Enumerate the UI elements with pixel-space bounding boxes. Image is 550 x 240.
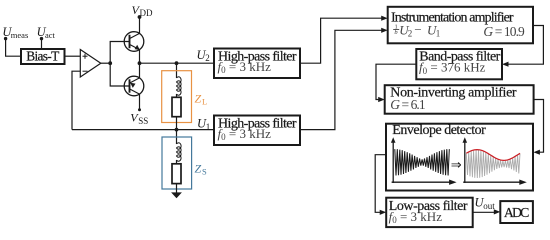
svg-text:G = 6.1: G = 6.1 [390,97,425,112]
wire U2 node to ZL [176,63,178,78]
node base-drive junction [108,61,112,65]
Bias-T block [21,48,65,64]
wire base node to Q2 base [110,63,129,86]
block non-inverting amplifier [385,85,534,114]
wire ZL resistor to U1 node [176,117,178,130]
ground [171,192,182,198]
wire inst amp to band-pass filter [508,26,543,65]
svg-text:act: act [45,30,56,40]
node Umeas terminal dot [4,37,7,40]
wire non-inverting amp to envelope detector [534,100,544,153]
inductor in ZL [176,77,181,95]
transistor Q2 (PNP) [124,76,144,96]
node ZL tap junction [175,61,179,65]
wire Q2 collector to VSS [139,94,141,110]
svg-text:out: out [483,201,495,211]
wire Q1 collector to VDD [139,17,141,33]
block envelope detector [386,123,533,191]
svg-text:SS: SS [138,116,148,126]
wire Q2 emitter to output node [139,63,141,78]
svg-text:S: S [202,167,207,177]
net VSS label [130,111,148,126]
svg-text:1: 1 [206,122,211,132]
inductor in ZS [176,143,181,161]
wire Uact to Bias-T top [41,39,43,49]
svg-text:⇒: ⇒ [451,157,462,172]
svg-text:2: 2 [408,29,413,39]
node Uact terminal dot [40,37,43,40]
wire envelope detector to low-pass filter [375,155,386,213]
wire HP1 to instrumentation amplifier [300,18,382,63]
svg-text:L: L [202,97,207,107]
svg-text:Bias-T: Bias-T [26,48,59,63]
node U1 junction [175,128,179,132]
svg-text:Z: Z [195,162,202,176]
block ADC [500,201,533,223]
svg-text:2: 2 [205,53,210,63]
label ZL [195,92,208,107]
left plot x-axis [392,180,457,185]
svg-text:ADC: ADC [504,205,530,220]
block band-pass filter [416,49,502,79]
wire feedback U1 to op-amp - input [72,71,80,129]
impedance ZS outline box [162,137,192,189]
wire Bias-T to op-amp + input [65,55,81,57]
svg-text:G = 10.9: G = 10.9 [483,24,525,39]
right plot x-axis [463,180,527,185]
block instrumentation amplifier [388,7,533,44]
impedance ZL outline box [162,71,192,123]
svg-text:Envelope detector: Envelope detector [392,123,486,138]
right plot envelope curve (red) [466,150,520,161]
wire coil to resistor ZS [176,160,178,164]
svg-text:DD: DD [140,8,153,18]
wire Q1 emitter to output node [139,50,141,64]
wire low-pass filter to ADC [473,209,501,214]
label ZS [195,162,208,177]
wire base node to Q1 base [110,42,129,64]
op-amp U1 [80,50,101,78]
net Uout label [475,196,496,211]
wire Umeas to Bias-T [6,39,21,57]
node Uact label [37,25,56,40]
node VSS terminal dot [138,108,141,111]
svg-text:meas: meas [11,30,28,40]
block high-pass filter 1 [214,49,300,79]
wire U1 node to ZS [176,130,178,144]
wire coil to resistor ZL [176,94,178,97]
svg-text:f0 = 376 kHz: f0 = 376 kHz [419,60,486,76]
wire U1 rail (feedback) [72,129,214,131]
resistor in ZS [172,164,181,184]
svg-text:−: − [414,22,421,37]
right plot AM waveform (gray) [466,150,520,178]
wire ZS to ground [176,184,178,195]
svg-text:Z: Z [195,92,202,106]
node emitter junction [138,61,142,65]
transistor Q1 (NPN) [124,32,144,52]
svg-text:f0 = 3 kHz: f0 = 3 kHz [218,126,272,142]
wire op-amp output to base node [101,62,110,64]
right plot y-axis [463,137,468,183]
net U1 label [197,116,210,132]
svg-text:f0 = 3 kHz: f0 = 3 kHz [218,59,272,75]
resistor in ZL [172,97,181,116]
left plot y-axis [391,137,396,183]
block low-pass filter [386,198,473,227]
node Umeas label [2,25,28,40]
net U2 label [197,48,210,63]
wire U2 rail [140,62,215,64]
wire band-pass to non-inverting amplifier [376,64,416,99]
svg-text:1: 1 [436,29,441,39]
node VDD terminal dot [138,15,142,19]
block high-pass filter 2 [214,116,300,146]
svg-text:f0 = 3 kHz: f0 = 3 kHz [389,209,443,225]
net VDD label [132,3,153,18]
left plot AM waveform [395,149,450,175]
wire HP2 to instrumentation amplifier [300,30,382,129]
